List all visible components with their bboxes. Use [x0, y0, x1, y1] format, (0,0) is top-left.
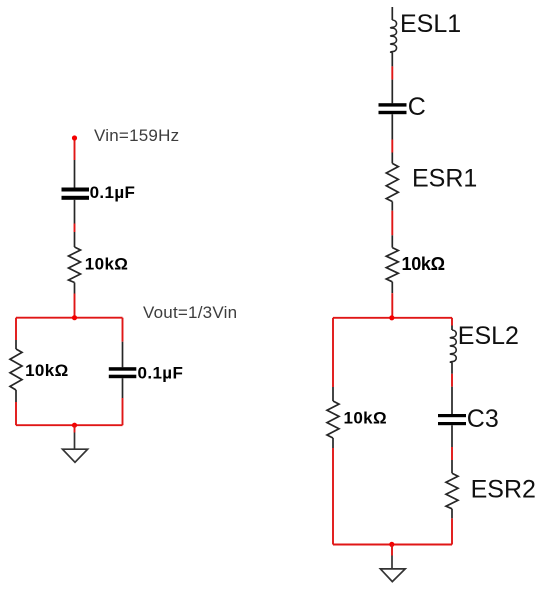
wire (red) C to ESR1	[391, 140, 393, 153]
capacitor C	[379, 103, 407, 114]
svg-text:Vin=159Hz: Vin=159Hz	[94, 126, 179, 145]
ground (left)	[63, 433, 88, 463]
inductor ESL1	[391, 20, 397, 52]
capacitor 0.1uF (series)	[62, 188, 90, 200]
svg-text:ESR2: ESR2	[471, 476, 536, 504]
svg-text:ESL2: ESL2	[458, 322, 519, 350]
svg-text:10kΩ: 10kΩ	[25, 361, 69, 380]
ground (right)	[380, 556, 405, 582]
svg-text:10kΩ: 10kΩ	[402, 254, 445, 274]
node bottom-left	[72, 423, 77, 428]
wire (red) C to R	[74, 224, 76, 233]
wire loop rectangle right (red)	[333, 318, 452, 545]
wire (red) ESL1 to C	[391, 66, 393, 79]
svg-text:ESR1: ESR1	[412, 165, 477, 193]
svg-text:C3: C3	[467, 405, 499, 433]
resistor 10k (shunt)	[10, 340, 22, 402]
capacitor C3	[438, 387, 466, 447]
node Vout	[72, 315, 77, 320]
wire (red) node to ground	[74, 425, 76, 432]
svg-text:10kΩ: 10kΩ	[344, 409, 388, 428]
node top (right circuit)	[389, 315, 394, 320]
wire lead out of C	[391, 114, 393, 139]
inductor ESL2	[450, 326, 456, 374]
wire lead below ESL1	[391, 53, 393, 67]
svg-text:0.1µF: 0.1µF	[90, 183, 136, 202]
wire (red) ESR1 to 10k	[391, 211, 393, 236]
svg-text:ESL1: ESL1	[400, 10, 461, 38]
svg-text:0.1µF: 0.1µF	[138, 364, 184, 383]
node Vin	[72, 135, 77, 140]
wire lead into C	[74, 160, 76, 188]
resistor 10k (series)	[69, 232, 81, 294]
wire lead into C	[391, 80, 393, 104]
svg-text:Vout=1/3Vin: Vout=1/3Vin	[143, 303, 237, 322]
capacitor 0.1uF (shunt)	[109, 342, 137, 398]
wire (red) R to node	[74, 294, 76, 318]
wire lead out of C	[74, 200, 76, 224]
wire (red) node to ground	[391, 545, 393, 556]
node bottom (right circuit)	[389, 542, 394, 547]
resistor ESR1	[386, 153, 398, 211]
resistor 10k (shunt, right)	[327, 387, 339, 448]
resistor ESR2	[446, 460, 458, 518]
svg-text:10kΩ: 10kΩ	[85, 255, 129, 274]
svg-text:C: C	[408, 93, 426, 121]
wire (red) Vin stub	[74, 138, 76, 160]
resistor 10k (series, right)	[386, 235, 398, 293]
wire loop rectangle (red)	[16, 318, 123, 426]
wire (red) 10k to node	[391, 293, 393, 318]
wire top stub	[391, 7, 393, 20]
